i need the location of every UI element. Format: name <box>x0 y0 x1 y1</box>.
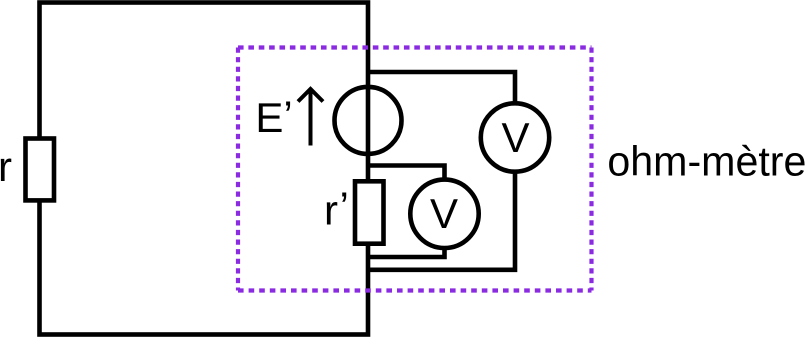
svg-text:E’: E’ <box>255 92 292 141</box>
svg-text:r: r <box>0 143 12 190</box>
wire: top branch to big voltmeter <box>368 72 515 106</box>
voltmeter U1 circle (big V) <box>481 103 549 171</box>
ohm-meter dotted boundary box: bottom edge <box>238 288 592 292</box>
ohm-meter dotted boundary box: right edge <box>589 48 593 291</box>
resistor r <box>26 139 55 201</box>
voltmeter U2 circle (small V) <box>410 180 478 248</box>
svg-text:V: V <box>501 114 529 161</box>
source E' circle <box>335 87 402 154</box>
wire: bottom branch from small voltmeter <box>368 245 445 257</box>
resistor r' <box>355 181 384 243</box>
wire: outer circuit loop (left cell loop) <box>40 3 369 335</box>
ohm-meter dotted boundary box: left edge <box>236 48 240 291</box>
emf arrow for E' <box>309 91 313 146</box>
svg-text:r’: r’ <box>324 183 349 234</box>
svg-text:ohm-mètre: ohm-mètre <box>607 137 806 184</box>
svg-text:V: V <box>430 190 458 237</box>
ohm-meter dotted boundary box: top edge <box>238 45 592 49</box>
wire: top branch to small voltmeter <box>368 166 445 184</box>
wire: bottom branch from big voltmeter <box>368 169 515 270</box>
